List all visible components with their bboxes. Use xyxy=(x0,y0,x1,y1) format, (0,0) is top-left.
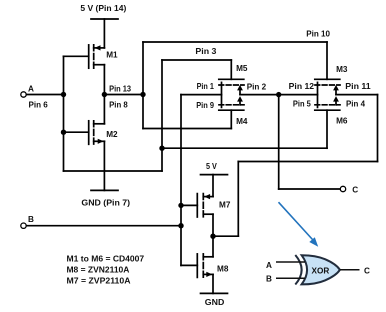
svg-text:Pin 3: Pin 3 xyxy=(195,47,216,56)
svg-text:Pin 11: Pin 11 xyxy=(345,82,371,91)
svg-text:M1 to M6 = CD4007: M1 to M6 = CD4007 xyxy=(67,254,145,263)
svg-text:M3: M3 xyxy=(336,65,348,74)
svg-text:M5: M5 xyxy=(236,64,248,73)
svg-text:B: B xyxy=(28,215,34,224)
svg-text:5 V: 5 V xyxy=(206,162,217,171)
svg-text:M6: M6 xyxy=(336,117,348,126)
svg-text:M2: M2 xyxy=(106,130,118,139)
svg-text:C: C xyxy=(364,267,370,276)
svg-text:M7: M7 xyxy=(219,201,231,210)
svg-text:Pin 9: Pin 9 xyxy=(196,101,214,110)
svg-text:GND (Pin 7): GND (Pin 7) xyxy=(81,199,130,208)
svg-text:Pin 4: Pin 4 xyxy=(346,100,365,109)
svg-text:XOR: XOR xyxy=(312,267,330,276)
svg-text:A: A xyxy=(266,261,272,270)
svg-text:M8: M8 xyxy=(217,265,229,274)
svg-text:B: B xyxy=(266,275,272,284)
svg-text:M7 = ZVP2110A: M7 = ZVP2110A xyxy=(67,277,131,286)
svg-text:Pin 1: Pin 1 xyxy=(197,82,215,91)
svg-text:Pin 13: Pin 13 xyxy=(109,84,131,93)
svg-text:M1: M1 xyxy=(106,51,118,60)
svg-text:Pin 2: Pin 2 xyxy=(247,83,267,92)
svg-text:Pin 6: Pin 6 xyxy=(29,100,49,109)
svg-text:Pin 8: Pin 8 xyxy=(109,100,128,109)
svg-text:M4: M4 xyxy=(236,117,248,126)
svg-text:Pin 12: Pin 12 xyxy=(289,82,315,91)
svg-text:M8 = ZVN2110A: M8 = ZVN2110A xyxy=(67,266,130,275)
svg-text:Pin 10: Pin 10 xyxy=(306,30,330,39)
svg-text:5 V (Pin 14): 5 V (Pin 14) xyxy=(80,4,126,13)
svg-text:A: A xyxy=(28,84,34,93)
svg-text:Pin 5: Pin 5 xyxy=(293,100,311,109)
svg-text:C: C xyxy=(352,185,358,194)
svg-text:GND: GND xyxy=(205,298,225,307)
